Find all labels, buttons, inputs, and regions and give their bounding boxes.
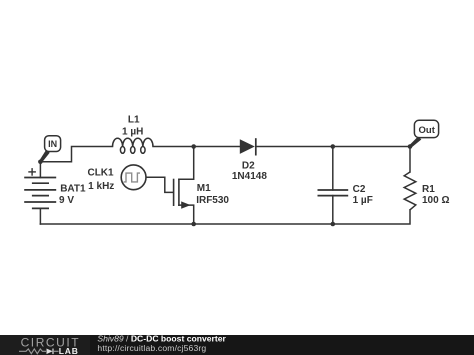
- svg-text:1 µF: 1 µF: [353, 195, 373, 206]
- svg-text:LAB: LAB: [59, 346, 79, 355]
- svg-text:M1: M1: [197, 183, 211, 194]
- svg-text:http://circuitlab.com/cj563rg: http://circuitlab.com/cj563rg: [97, 343, 206, 353]
- footer bar: [0, 335, 474, 355]
- capacitor C2: [318, 190, 349, 196]
- transistor M1 arrow: [181, 201, 190, 208]
- wire top from IN corner to L1: [40, 147, 112, 162]
- clock source CLK1: [121, 165, 146, 190]
- svg-text:Out: Out: [419, 125, 436, 136]
- svg-text:IN: IN: [48, 139, 57, 149]
- resistor R1: [404, 172, 416, 210]
- wire battery top lead: [39, 162, 41, 178]
- svg-text:100 Ω: 100 Ω: [422, 195, 449, 206]
- svg-text:R1: R1: [422, 184, 435, 195]
- svg-text:CLK1: CLK1: [87, 167, 114, 178]
- footer logo resistor zigzag: [19, 349, 46, 354]
- wire top diode cathode to Out node: [256, 146, 410, 148]
- svg-text:C2: C2: [353, 184, 366, 195]
- diode D2: [240, 138, 256, 155]
- wire CLK to gate: [146, 177, 173, 192]
- footer logo diode: [47, 349, 53, 355]
- battery BAT1: [24, 178, 56, 209]
- wire C2 top lead: [332, 147, 334, 191]
- svg-text:9 V: 9 V: [59, 195, 74, 206]
- junction node C2 top: [331, 144, 336, 149]
- junction node source bottom: [191, 222, 196, 227]
- svg-text:1 µH: 1 µH: [122, 126, 143, 137]
- svg-text:BAT1: BAT1: [60, 183, 86, 194]
- svg-text:1 kHz: 1 kHz: [88, 181, 114, 192]
- wire top L1 to diode anode: [153, 146, 240, 148]
- transistor M1 (NMOS): [174, 179, 179, 206]
- svg-text:L1: L1: [128, 115, 140, 126]
- junction node Out: [408, 144, 413, 149]
- svg-text:1N4148: 1N4148: [232, 171, 267, 182]
- svg-text:IRF530: IRF530: [196, 195, 229, 206]
- svg-text:D2: D2: [242, 160, 255, 171]
- wire MOSFET drain: [179, 147, 194, 180]
- flag IN: [39, 136, 60, 163]
- wire C2 bottom lead: [332, 196, 334, 224]
- junction node drain top: [191, 144, 196, 149]
- wire bottom rail: [40, 210, 410, 224]
- flag Out: [409, 120, 439, 148]
- junction node IN: [38, 160, 43, 165]
- wire R1 top lead: [409, 147, 411, 173]
- wire MOSFET source: [179, 205, 194, 224]
- wire battery bottom lead: [39, 208, 41, 224]
- junction node C2 bottom: [331, 222, 336, 227]
- battery plus sign: [28, 168, 36, 176]
- inductor L1: [113, 138, 154, 153]
